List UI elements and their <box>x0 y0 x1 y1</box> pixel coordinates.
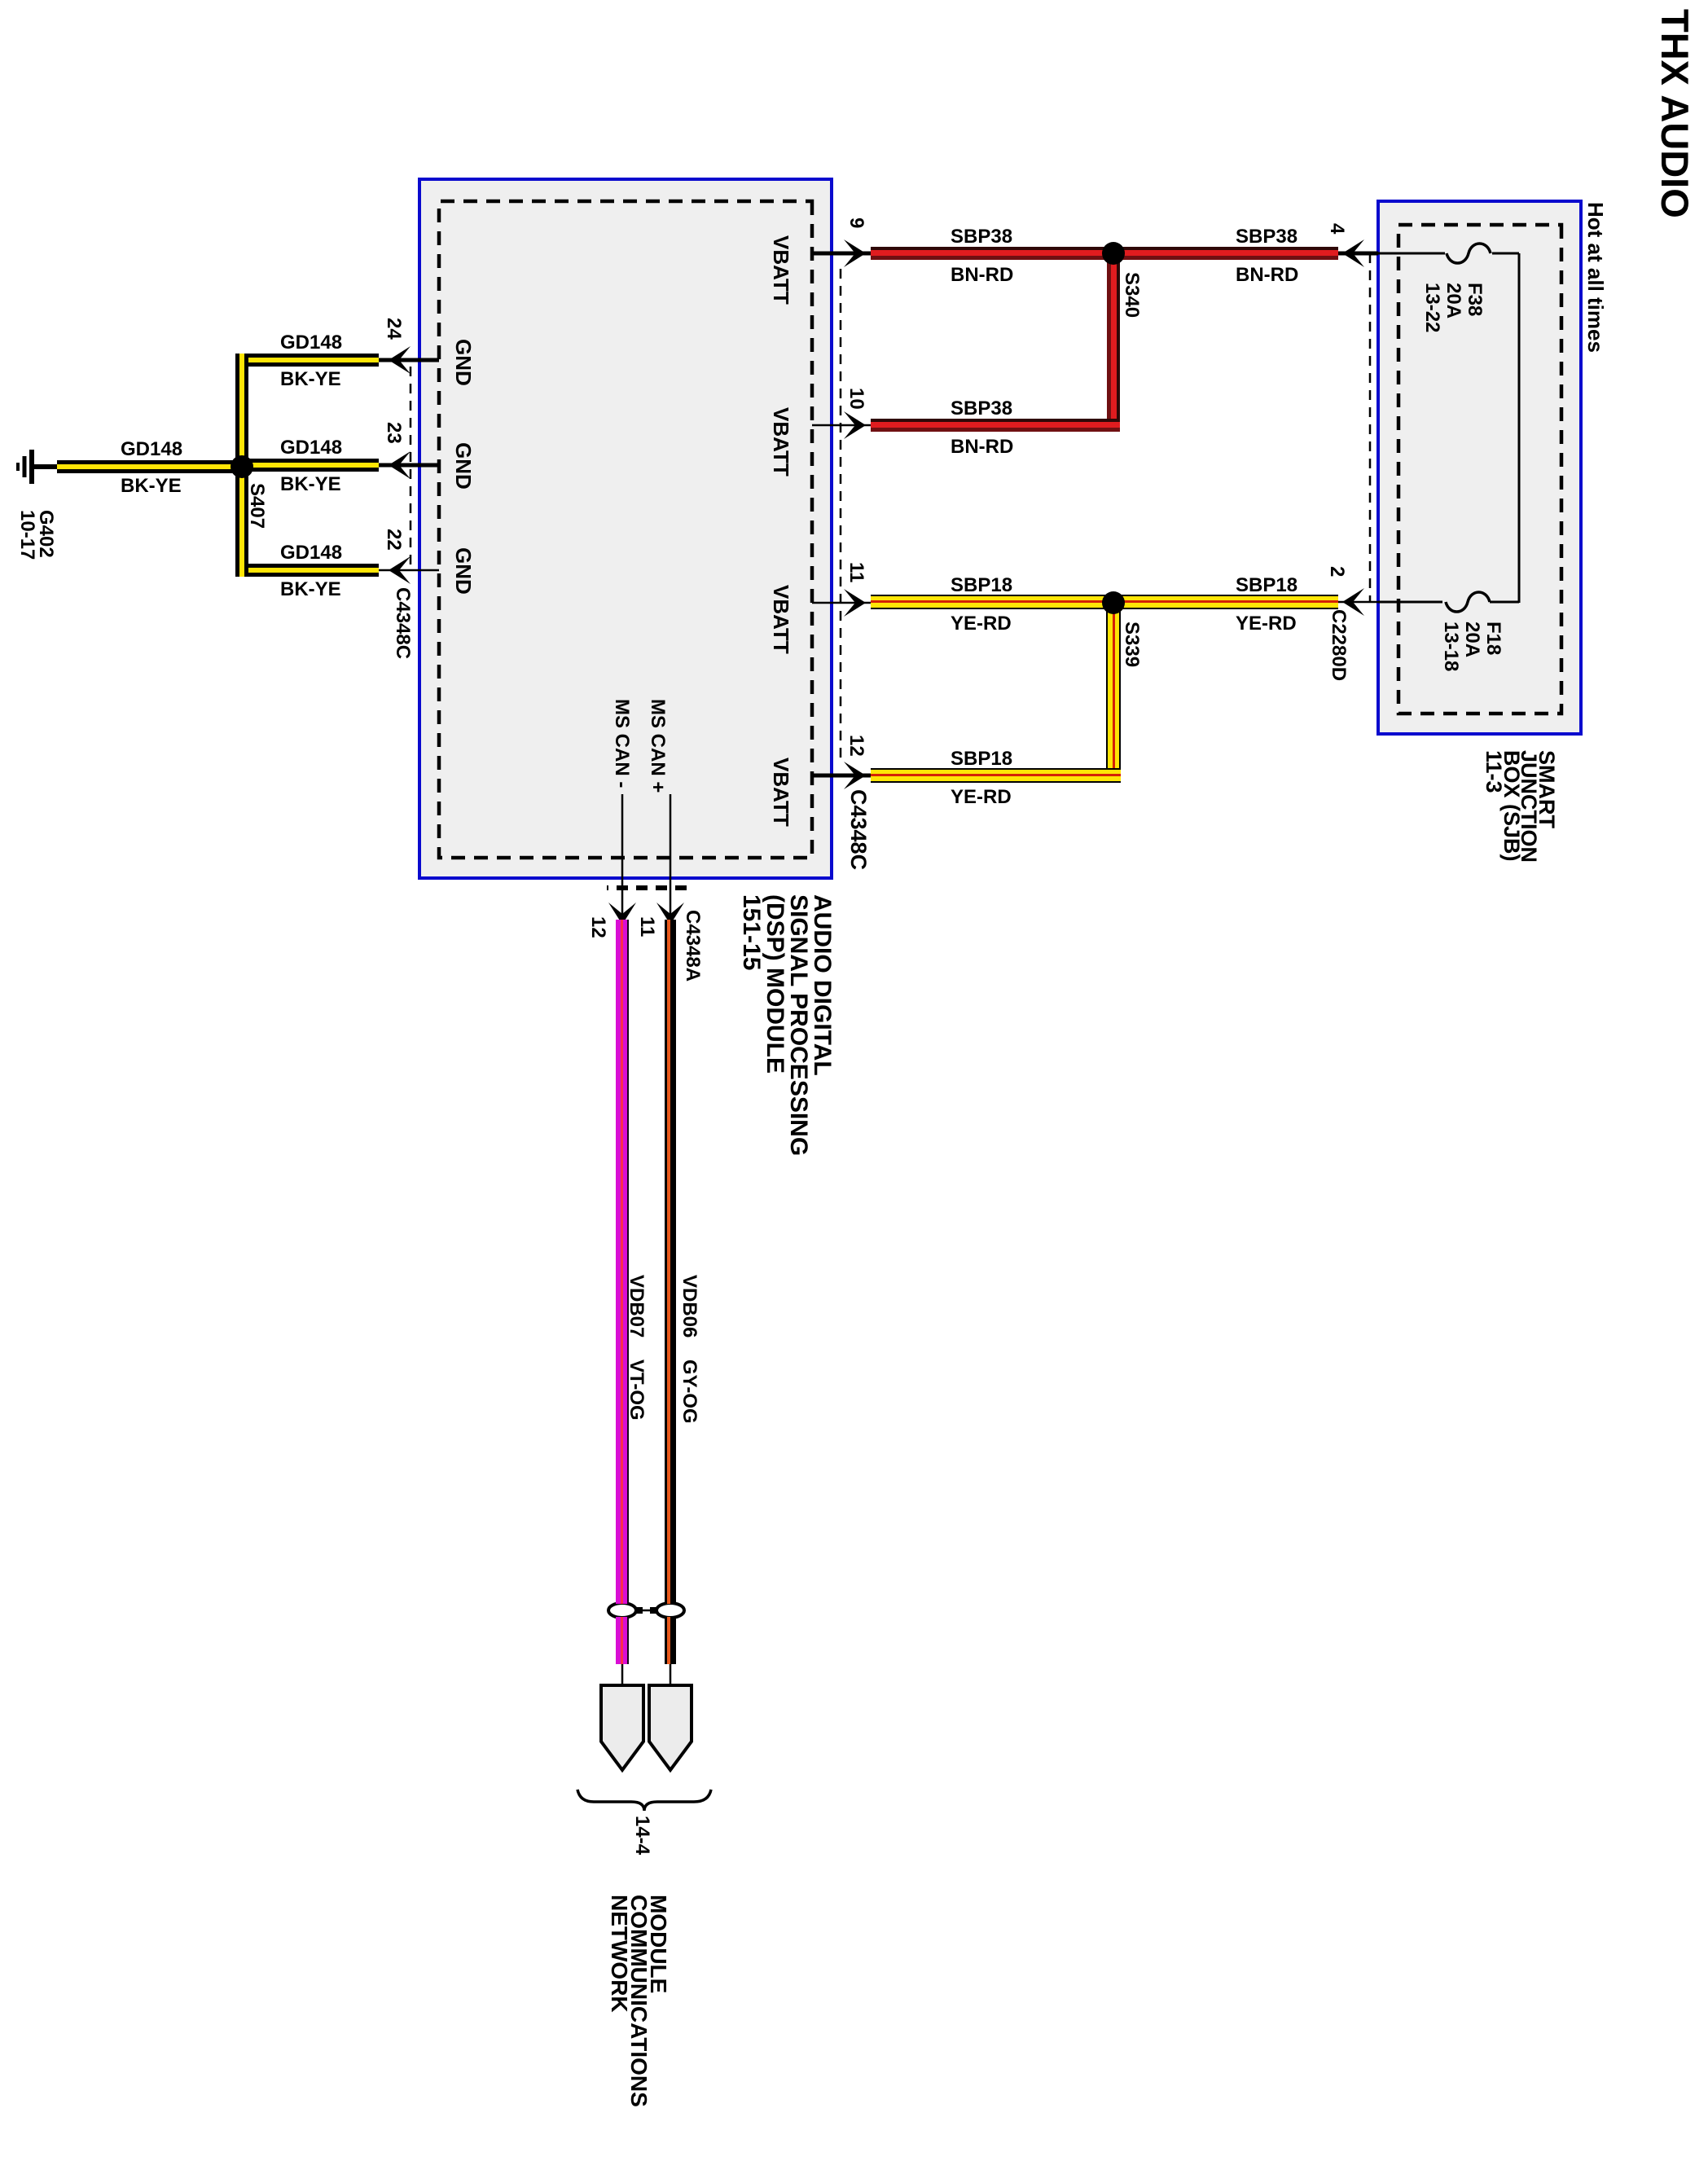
label SBP38 upper <box>1236 226 1297 248</box>
wire SBP18 YE-RD main (pin2 to pin11) <box>871 595 1338 609</box>
DSP pin 24 arrow <box>389 346 411 374</box>
label BK-YE pin22 <box>280 579 341 600</box>
MS CAN - terminal connector <box>601 1685 643 1770</box>
label BN-RD branch <box>951 437 1013 458</box>
DSP pin 12 arrow <box>844 762 866 789</box>
label S407 <box>246 483 267 529</box>
label SMART JUNCTION BOX <box>1485 750 1555 863</box>
junction S340 <box>1102 242 1125 265</box>
label AUDIO DIGITAL SIGNAL PROCESSING (DSP) MODULE <box>740 894 834 1156</box>
wire SBP18 YE-RD branch (S339 to pin12) <box>1106 595 1121 783</box>
label connector C4348C bottom <box>392 587 413 659</box>
DSP pin 11 stub wire <box>812 602 871 604</box>
label connector C2280D <box>1328 609 1349 681</box>
DSP MS CAN - stub wire <box>621 794 624 921</box>
ground symbol G402 <box>18 450 59 484</box>
DSP pin 23 arrow <box>389 451 411 479</box>
label MS CAN - <box>611 699 632 788</box>
label VBATT pin 12 <box>770 758 793 827</box>
label fuse F38 <box>1421 283 1485 332</box>
label BK-YE ground <box>121 476 182 497</box>
DSP pin 24 stub wire <box>377 358 439 362</box>
label pin 4 <box>1326 223 1347 234</box>
connector C4348A bold dashed line <box>607 885 687 890</box>
label pin 12 CAN <box>587 916 608 938</box>
DSP module box <box>419 179 832 878</box>
junction S407 <box>231 455 253 478</box>
label GND pin 23 <box>452 442 475 490</box>
label GY-OG <box>678 1359 700 1424</box>
DSP pin 12 stub wire <box>812 774 871 778</box>
title THX AUDIO <box>1653 9 1695 218</box>
label SBP18 lower <box>951 575 1012 596</box>
DSP connector dashed line C4348C (top) <box>840 269 842 762</box>
label SBP18 upper <box>1236 575 1297 596</box>
wire VDB06 GY-OG segment 2 <box>665 1617 676 1664</box>
wire GD148 BK-YE pin 23 <box>242 459 379 472</box>
DSP pin 9 stub wire <box>812 252 871 256</box>
SJB box (Smart Junction Box) <box>1378 201 1581 734</box>
DSP pin 9 arrow <box>844 239 866 267</box>
label BK-YE pin24 <box>280 369 341 390</box>
label connector C4348C top <box>846 789 870 870</box>
label MODULE COMMUNICATIONS NETWORK <box>609 1895 668 2107</box>
label GD148 pin22 <box>280 542 342 564</box>
label S339 <box>1121 622 1142 667</box>
wire GD148 BK-YE to ground <box>57 460 248 473</box>
label BN-RD lower <box>951 265 1013 286</box>
wire VDB06 GY-OG segment 1 <box>665 920 676 1604</box>
label pin 10 <box>845 388 867 410</box>
label pin 2 <box>1326 566 1347 577</box>
fuse F38 20A <box>1378 244 1519 263</box>
brace 14-4 <box>577 1790 711 1811</box>
label connector C4348A <box>682 910 703 982</box>
MS CAN + terminal link <box>670 1664 672 1685</box>
label Hot at all times <box>1584 202 1607 353</box>
wire SBP38 BN-RD main (pin4 to pin9) <box>871 247 1338 260</box>
DSP pin 22 stub wire <box>377 569 439 572</box>
label VDB07 <box>626 1275 647 1337</box>
label pin 9 <box>845 217 867 228</box>
DSP pin 10 arrow <box>844 411 866 439</box>
label VBATT pin 10 <box>770 407 793 477</box>
label BK-YE pin23 <box>280 474 341 495</box>
SJB pin 2 arrow <box>1342 588 1364 616</box>
label GD148 pin24 <box>280 332 342 354</box>
label YE-RD upper <box>1236 613 1297 635</box>
label GD148 ground <box>121 439 182 460</box>
DSP pin 10 stub wire <box>812 424 871 427</box>
twisted pair symbol <box>608 1603 684 1618</box>
label GND pin 24 <box>452 339 475 386</box>
wire VDB07 VT-OG segment 1 <box>616 920 629 1604</box>
DSP pin 23 stub wire <box>377 463 439 468</box>
DSP MS CAN + stub wire <box>670 794 672 921</box>
label pin 22 <box>383 529 404 551</box>
label pin 12 <box>845 735 867 757</box>
wire SBP38 BN-RD branch (S340 to pin10) <box>1107 247 1120 432</box>
DSP connector dashed line C4348C (bottom) <box>410 367 412 567</box>
label MS CAN + <box>647 699 668 793</box>
wire GD148 BK-YE pin 22 <box>242 564 379 577</box>
fuse F18 20A <box>1378 592 1519 612</box>
label G402 10-17 <box>18 510 55 560</box>
label VBATT pin 9 <box>770 235 793 305</box>
junction S339 <box>1102 591 1125 614</box>
label pin 11 <box>845 562 867 582</box>
SJB pin 4 arrow <box>1342 239 1364 267</box>
label VT-OG <box>626 1359 647 1421</box>
label YE-RD lower <box>951 613 1012 635</box>
label YE-RD branch <box>951 787 1012 808</box>
label pin 23 <box>383 422 404 444</box>
wire VDB07 VT-OG segment 2 <box>616 1617 629 1664</box>
DSP MS CAN + arrow <box>656 903 684 925</box>
SJB feed bus wire (Hot at all times) <box>1518 253 1521 603</box>
wire GD148 BK-YE pin 24 <box>242 354 379 367</box>
SJB connector dashed line C2280D <box>1369 253 1372 603</box>
label SBP18 branch <box>951 749 1012 770</box>
label VBATT pin 11 <box>770 585 793 654</box>
SJB pin 2 stub wire <box>1337 601 1378 604</box>
DSP pin 22 arrow <box>389 556 411 584</box>
label SBP38 lower <box>951 226 1012 248</box>
DSP pin 11 arrow <box>844 589 866 617</box>
label BN-RD upper <box>1236 265 1298 286</box>
label S340 <box>1121 272 1142 318</box>
label pin 24 <box>383 318 404 340</box>
DSP MS CAN - arrow <box>608 903 636 925</box>
label fuse F18 <box>1440 622 1504 671</box>
label 14-4 <box>631 1816 652 1855</box>
label SBP38 branch <box>951 398 1012 419</box>
label VDB06 <box>678 1275 700 1337</box>
label pin 11 CAN <box>636 916 657 937</box>
label GD148 pin23 <box>280 437 342 459</box>
SJB pin 4 stub wire <box>1337 252 1378 256</box>
MS CAN - terminal link <box>621 1664 624 1685</box>
label GND pin 22 <box>452 547 475 595</box>
MS CAN + terminal connector <box>649 1685 692 1770</box>
wire GD148 BK-YE bus S407 <box>235 354 248 577</box>
